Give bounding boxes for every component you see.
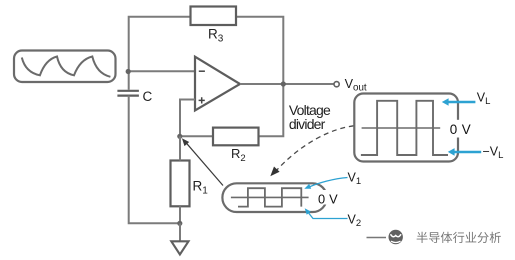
dashed annotation curve from Vout waveform box to small waveform box	[275, 126, 354, 173]
wire: R2 right to output vertical	[259, 84, 284, 136]
svg-text:0 V: 0 V	[318, 191, 338, 206]
resistor R3	[191, 7, 237, 26]
svg-text:divider: divider	[289, 116, 326, 132]
resistor R1	[171, 161, 190, 207]
ground	[171, 241, 188, 254]
Vout waveform box	[354, 94, 458, 162]
terminal: Vout open circle	[334, 82, 339, 87]
op-amp U1	[195, 57, 240, 111]
logo separator dash	[367, 237, 387, 239]
cyan arrow -VL	[455, 151, 482, 153]
small waveform box (divider voltage)	[222, 183, 326, 212]
op-amp minus sign	[199, 70, 205, 72]
svg-text:C: C	[143, 89, 153, 104]
node: junction at C / - input	[126, 69, 131, 74]
wire: top feedback left segment	[129, 17, 191, 90]
wire: + node to R2	[180, 135, 213, 137]
cyan pointer to V2 level	[307, 211, 348, 219]
node: + input junction	[177, 134, 182, 139]
node: output junction	[281, 81, 286, 86]
logo text (vector glyphs)	[417, 232, 501, 243]
wire: output	[240, 83, 334, 85]
logo icon	[389, 230, 403, 244]
arrowhead VL	[442, 98, 449, 106]
white gap behind big 0 V label	[448, 120, 471, 138]
wire: non-inverting input	[180, 100, 195, 137]
arrowhead of dashed curve	[270, 167, 279, 177]
pointer arrow from small box to + node	[186, 142, 223, 185]
capacitor C	[117, 91, 138, 96]
cyan arrow VL	[449, 101, 476, 103]
wire: top feedback right segment + vertical down to output node	[236, 17, 283, 84]
arrowhead -VL	[448, 148, 455, 156]
arrowhead V2	[305, 208, 311, 215]
op-amp plus sign	[199, 97, 205, 103]
wire: R1 bottom	[179, 206, 181, 223]
node: bottom junction	[177, 221, 182, 226]
small 0V axis line	[231, 196, 309, 198]
svg-text:0 V: 0 V	[450, 122, 471, 137]
cyan pointer to V1 level	[309, 178, 348, 188]
arrowhead of pointer arrow	[182, 138, 189, 146]
wire: left vertical below capacitor	[129, 96, 180, 224]
waveform display box (capacitor voltage)	[14, 51, 116, 83]
wire: ground stem	[179, 223, 181, 241]
wire: inverting input	[129, 70, 195, 72]
white gap behind small 0 V label	[316, 190, 339, 205]
big square wave	[361, 101, 448, 155]
big 0V axis line	[362, 127, 441, 129]
small square wave	[238, 188, 301, 206]
arrowhead V1	[304, 184, 311, 189]
resistor R2	[213, 128, 259, 146]
wire: R1 top	[179, 136, 181, 160]
triangle-exponential waveform	[22, 57, 111, 77]
